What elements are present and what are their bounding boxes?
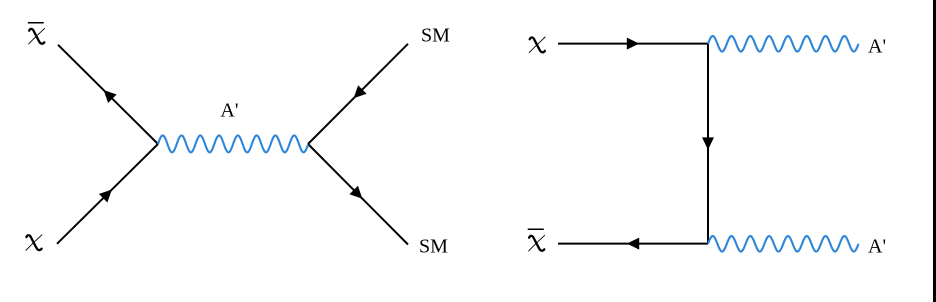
svg-text:A': A' xyxy=(220,99,238,121)
svg-text:A': A' xyxy=(868,36,886,58)
svg-text:SM: SM xyxy=(421,24,450,46)
svg-text:SM: SM xyxy=(419,236,448,258)
svg-text:A': A' xyxy=(868,236,886,258)
